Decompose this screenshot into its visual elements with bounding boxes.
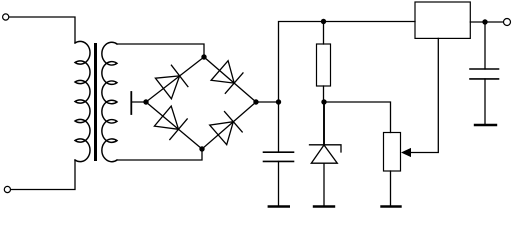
wire bridge edge bottom-right (202, 102, 256, 149)
ground (C1 branch) (269, 205, 289, 207)
wire wiper to regulator ADJ (409, 38, 438, 152)
transformer T1 primary winding (75, 41, 90, 161)
wire (131, 101, 146, 103)
node bridge left (143, 99, 148, 104)
wire bridge edge top-right (204, 57, 256, 102)
wire zener to ground (323, 163, 325, 206)
ground (zener branch) (314, 205, 334, 207)
node output (482, 19, 487, 24)
wire (9, 17, 75, 43)
node bridge top (201, 54, 206, 59)
input terminal J2 (bottom) (4, 186, 10, 192)
node rail-resistor junction (321, 19, 326, 24)
node bridge right (253, 99, 258, 104)
wire rail to R1 (323, 22, 325, 45)
ground (C2 branch) (475, 124, 496, 126)
capacitor C2 (470, 69, 499, 79)
ground (potentiometer branch) (382, 205, 401, 207)
wire node to potentiometer top (324, 102, 391, 133)
wire R1 to node (323, 86, 325, 102)
wire bridge right to DC node (256, 101, 279, 103)
wire regulator output (470, 21, 503, 23)
diode D3 (left vertex to bottom vertex) (154, 106, 187, 140)
wire DC node up and top rail to regulator (279, 22, 416, 103)
resistor R1 (317, 44, 331, 86)
node resistor-zener (321, 99, 326, 104)
wire secondary top to bridge (117, 44, 204, 57)
wire (11, 160, 75, 190)
diode D4 (bottom vertex to right vertex) (210, 112, 243, 145)
diode D1 (left vertex to top vertex) (155, 65, 188, 99)
wire C2 to ground (484, 79, 486, 125)
terminal bar (DC minus stub) (130, 92, 132, 114)
output terminal J3 (504, 19, 511, 26)
wire secondary bottom to bridge (117, 149, 202, 160)
node bridge bottom (199, 146, 204, 151)
wire C1 to ground (278, 161, 280, 206)
potentiometer RP body (384, 133, 401, 172)
wire bridge edge left-bottom (146, 102, 202, 149)
regulator U1 box (415, 2, 470, 38)
zener diode VD (cathode bar with tick) (310, 145, 342, 152)
input terminal J1 (top) (3, 14, 9, 20)
capacitor C1 (264, 152, 294, 161)
wire potentiometer to ground (390, 171, 392, 206)
diode D2 (top vertex to right vertex) (211, 61, 243, 94)
potentiometer wiper arrow (401, 148, 411, 157)
wire bridge edge left-top (146, 57, 204, 102)
wire DC node down to C1 (278, 102, 280, 152)
wire node to zener (323, 102, 325, 145)
transformer T1 secondary winding (102, 42, 117, 161)
node DC plus (276, 99, 281, 104)
transformer T1 core (94, 43, 97, 161)
zener diode VD triangle (311, 145, 337, 163)
wire output node to C2 (484, 22, 486, 69)
